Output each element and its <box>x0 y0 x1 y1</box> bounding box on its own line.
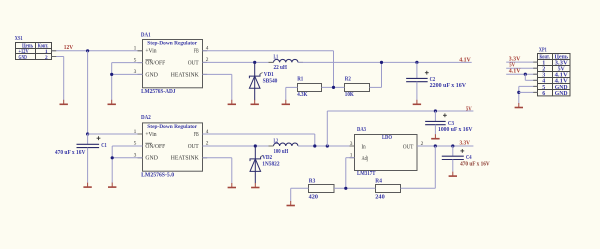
svg-text:C3: C3 <box>448 121 454 127</box>
svg-text:5V: 5V <box>466 106 472 112</box>
svg-text:+Vin: +Vin <box>145 49 156 55</box>
svg-text:10K: 10K <box>345 92 354 98</box>
svg-text:LM2576S-5.0: LM2576S-5.0 <box>141 173 174 179</box>
svg-text:C1: C1 <box>101 143 107 149</box>
svg-text:HEATSINK: HEATSINK <box>171 156 200 162</box>
svg-text:R3: R3 <box>309 178 316 184</box>
svg-text:L2: L2 <box>274 138 279 144</box>
svg-text:GND: GND <box>145 156 158 162</box>
svg-text:DA2: DA2 <box>141 115 151 121</box>
svg-text:R2: R2 <box>345 77 351 83</box>
svg-text:LM317T: LM317T <box>357 171 376 177</box>
svg-text:2: 2 <box>45 55 48 61</box>
svg-text:+Vin: +Vin <box>145 132 156 138</box>
svg-text:In: In <box>362 145 366 151</box>
svg-text:22 uH: 22 uH <box>274 65 288 71</box>
svg-text:LM2576S-ADJ: LM2576S-ADJ <box>141 89 176 95</box>
svg-text:OUT: OUT <box>188 61 199 67</box>
svg-text:470 uF x 16V: 470 uF x 16V <box>55 150 86 156</box>
svg-text:3.3V: 3.3V <box>509 56 521 62</box>
svg-text:Step-Down Regulator: Step-Down Regulator <box>147 41 197 47</box>
svg-text:GND: GND <box>555 91 568 97</box>
svg-text:FB: FB <box>194 49 199 55</box>
svg-text:1: 1 <box>134 129 137 135</box>
svg-text:DA3: DA3 <box>357 127 366 133</box>
svg-text:DA1: DA1 <box>141 33 151 39</box>
svg-text:1N5822: 1N5822 <box>262 161 279 167</box>
svg-text:4.1V: 4.1V <box>459 58 471 64</box>
svg-text:XP1: XP1 <box>539 48 547 54</box>
svg-text:FB: FB <box>194 132 199 138</box>
svg-text:2200 uF x 16V: 2200 uF x 16V <box>430 83 467 89</box>
svg-text:4.1V: 4.1V <box>509 68 521 74</box>
svg-text:SB540: SB540 <box>263 78 278 84</box>
svg-text:Adj: Adj <box>362 156 369 162</box>
svg-text:L1: L1 <box>274 55 279 61</box>
svg-text:1000 uF x 16V: 1000 uF x 16V <box>438 127 473 133</box>
svg-text:OUT: OUT <box>403 145 414 151</box>
svg-text:4.3K: 4.3K <box>297 92 308 98</box>
svg-text:ON/OFF: ON/OFF <box>145 61 165 67</box>
svg-text:GND: GND <box>19 55 28 61</box>
svg-text:3.3V: 3.3V <box>460 140 471 146</box>
svg-text:100 uH: 100 uH <box>274 149 289 155</box>
svg-text:Step-Down Regulator: Step-Down Regulator <box>147 124 197 130</box>
svg-text:470 uF x 16V: 470 uF x 16V <box>460 161 490 167</box>
svg-text:HEATSINK: HEATSINK <box>171 72 200 78</box>
svg-text:ON/OFF: ON/OFF <box>145 144 165 150</box>
svg-text:LDO: LDO <box>382 135 392 141</box>
svg-text:420: 420 <box>309 195 318 201</box>
svg-text:GND: GND <box>145 72 158 78</box>
svg-text:C4: C4 <box>466 155 472 161</box>
svg-text:1: 1 <box>134 46 137 52</box>
svg-text:12V: 12V <box>64 45 74 51</box>
svg-text:OUT: OUT <box>188 144 199 150</box>
svg-text:240: 240 <box>375 195 384 201</box>
svg-text:6: 6 <box>542 91 545 97</box>
svg-text:R1: R1 <box>297 77 303 83</box>
svg-text:XS1: XS1 <box>15 36 23 42</box>
svg-text:VD2: VD2 <box>262 155 272 161</box>
svg-text:VD1: VD1 <box>264 72 274 78</box>
svg-text:R4: R4 <box>375 178 382 184</box>
